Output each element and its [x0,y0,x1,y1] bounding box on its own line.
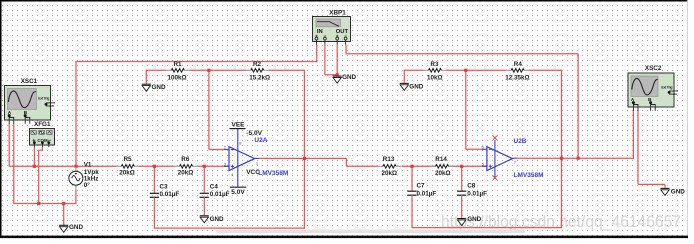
op-amp U2A [224,129,259,187]
ground (R1) [142,84,166,91]
svg-text:XFG1: XFG1 [34,121,51,128]
wire XBP1 pin2 to GND [325,74,337,76]
ground (XBP1) [333,74,357,83]
wire to GND (R3 left) [403,70,405,82]
wire U2A output [259,157,347,159]
svg-text:XBP1: XBP1 [329,9,346,16]
wire XBP1 pin2 down [324,45,326,75]
svg-text:20kΩ: 20kΩ [178,169,194,176]
AC source V1 [69,167,83,190]
wire bottom feedback left stage [154,227,305,229]
wire R2 right [269,69,304,71]
wire C4 top [203,166,205,192]
wire R5-R6 segment [139,165,175,167]
wire C8 to GND [461,196,463,218]
svg-text:IN: IN [317,29,323,35]
svg-text:-5.0V: -5.0V [246,130,262,137]
svg-text:R5: R5 [124,156,133,163]
svg-text:0.01µF: 0.01µF [417,191,437,198]
junction [33,165,36,168]
wire R4/output/bottom vertical [561,70,563,228]
junction [460,165,463,168]
svg-text:U2B: U2B [514,138,527,145]
svg-text:V1: V1 [84,162,92,169]
wire top line to XBP1 IN+ [75,61,316,63]
wire U2B output [516,157,633,159]
svg-text:XSC1: XSC1 [21,78,38,85]
wire bottom ground line [13,203,76,205]
function generator XFG1 [30,129,55,148]
VEE rail U2A [230,122,263,137]
resistor R13 [378,165,402,169]
bode plotter XBP1 [313,17,351,45]
svg-text:20kΩ: 20kΩ [435,170,451,177]
wire R3 left [404,69,423,71]
wire R13-R14 segment [402,165,436,167]
wire down to output node [577,54,579,158]
resistor R3 [423,69,447,73]
svg-text:0°: 0° [84,181,91,189]
op-amp U2B [482,140,517,178]
svg-text:GND: GND [152,84,166,91]
svg-text:GND: GND [409,84,423,91]
svg-text:GND: GND [69,224,83,231]
svg-text:R3: R3 [430,61,439,68]
resistor R5 [116,165,140,169]
svg-text:R4: R4 [514,61,523,68]
svg-text:0.01µF: 0.01µF [210,191,230,198]
oscilloscope XSC1 [5,86,56,124]
wire up to XSC2 A+ [632,111,634,159]
junction [303,157,306,160]
wire C7 bottom [411,196,413,228]
svg-text:R6: R6 [181,156,190,163]
ground (source) [59,224,83,232]
capacitor C8 [457,190,466,197]
svg-text:5.0V: 5.0V [231,189,245,196]
VCC rail U2A [230,169,260,196]
wire input line left [9,165,117,167]
junction [74,165,77,168]
wire R1-R2 segment [190,69,247,71]
svg-text:GND: GND [671,188,685,195]
junction [153,165,156,168]
svg-text:20kΩ: 20kΩ [382,170,398,177]
wire R4 right [529,69,562,71]
wire XSC1 A+ down [8,124,10,167]
wire R2/output/bottom vertical [303,70,305,228]
wire XFG1 + down [33,147,35,166]
wire R14 to U2B + input [448,165,487,167]
wire C3 top [153,166,155,192]
capacitor C3 [150,192,159,199]
resistor R1 [166,69,190,73]
capacitor C4 [200,192,209,199]
junction [560,157,563,160]
wire R3-R4 segment [447,69,507,71]
svg-text:GND: GND [210,216,224,223]
wire XBP1 pin3 to GND [336,45,338,76]
wire R6 to opamp + input [198,165,229,167]
wire R1 left [146,69,166,71]
wire C8 top [461,166,463,190]
svg-text:C3: C3 [160,183,169,190]
resistor R6 [174,165,198,169]
wire to GND (R1 left) [145,70,147,83]
wire XFG1 COM down [41,147,43,150]
no-connect X marks U2B power pins [493,136,497,180]
svg-text:GND: GND [342,74,356,81]
wire C4 to GND [203,198,205,215]
junction [577,157,580,160]
ground (C8) [457,216,481,226]
wire XSC1 A- down [13,124,15,204]
junction [464,69,467,72]
wire COM jog [39,149,43,151]
svg-text:Ext Trig: Ext Trig [38,97,49,101]
wire C3 bottom [153,198,155,229]
capacitor C7 [407,190,416,197]
svg-text:0.01µF: 0.01µF [467,191,487,198]
wire feedback to - input (right) [465,70,467,149]
junction [203,165,206,168]
wire XSC2 A- down [637,111,639,185]
svg-text:10kΩ: 10kΩ [427,74,443,81]
wire output step down [345,158,347,166]
svg-text:R14: R14 [435,156,447,163]
svg-text:LMV358M: LMV358M [258,170,288,177]
wire COM to ground line [38,150,40,203]
wire A- jog right [638,183,665,185]
svg-text:R1: R1 [174,61,183,68]
wire GND stem V1 [63,204,65,225]
wire V1 minus down [75,190,77,204]
svg-text:U2A: U2A [254,137,267,144]
svg-text:LMV358M: LMV358M [514,172,544,179]
wire C7 top [411,166,413,190]
svg-text:0.01µF: 0.01µF [160,191,180,198]
wire to R13 [346,165,377,167]
junction [207,69,210,72]
junction [410,165,413,168]
svg-text:R13: R13 [383,156,395,163]
wire V1 node up [75,62,77,167]
ground (R3) [400,83,424,90]
svg-text:15.2kΩ: 15.2kΩ [249,74,270,81]
wire XBP1 pin4 down [345,45,347,54]
svg-text:C7: C7 [417,183,426,190]
resistor R14 [430,165,454,169]
svg-text:100kΩ: 100kΩ [168,74,187,81]
svg-text:20kΩ: 20kΩ [119,169,135,176]
svg-text:VEE: VEE [232,122,246,129]
junction [336,73,339,76]
wire to opamp - input [209,149,224,151]
svg-text:C8: C8 [467,183,476,190]
wire bottom feedback right stage [412,227,562,229]
resistor R2 [245,69,269,73]
wire to U2B - input [466,148,482,150]
resistor R4 [506,69,530,73]
svg-text:12.35kΩ: 12.35kΩ [505,74,529,81]
svg-text:OUT: OUT [336,29,349,35]
svg-text:XSC2: XSC2 [645,65,662,72]
oscilloscope XSC2 [628,73,678,111]
wire XBP1 pin1 down [316,45,318,63]
wire A- to GND [664,184,666,187]
scrollbar thumb [216,230,525,234]
junction [37,202,40,205]
wire feedback to - input [208,70,210,149]
junction [62,202,65,205]
svg-text:R2: R2 [253,61,262,68]
svg-text:Ext Trig: Ext Trig [661,86,672,90]
ground (C4) [200,216,224,223]
svg-text:GND: GND [467,216,481,223]
ground (XSC2) [661,188,686,195]
wire top line right [346,53,578,55]
svg-text:C4: C4 [210,183,219,190]
